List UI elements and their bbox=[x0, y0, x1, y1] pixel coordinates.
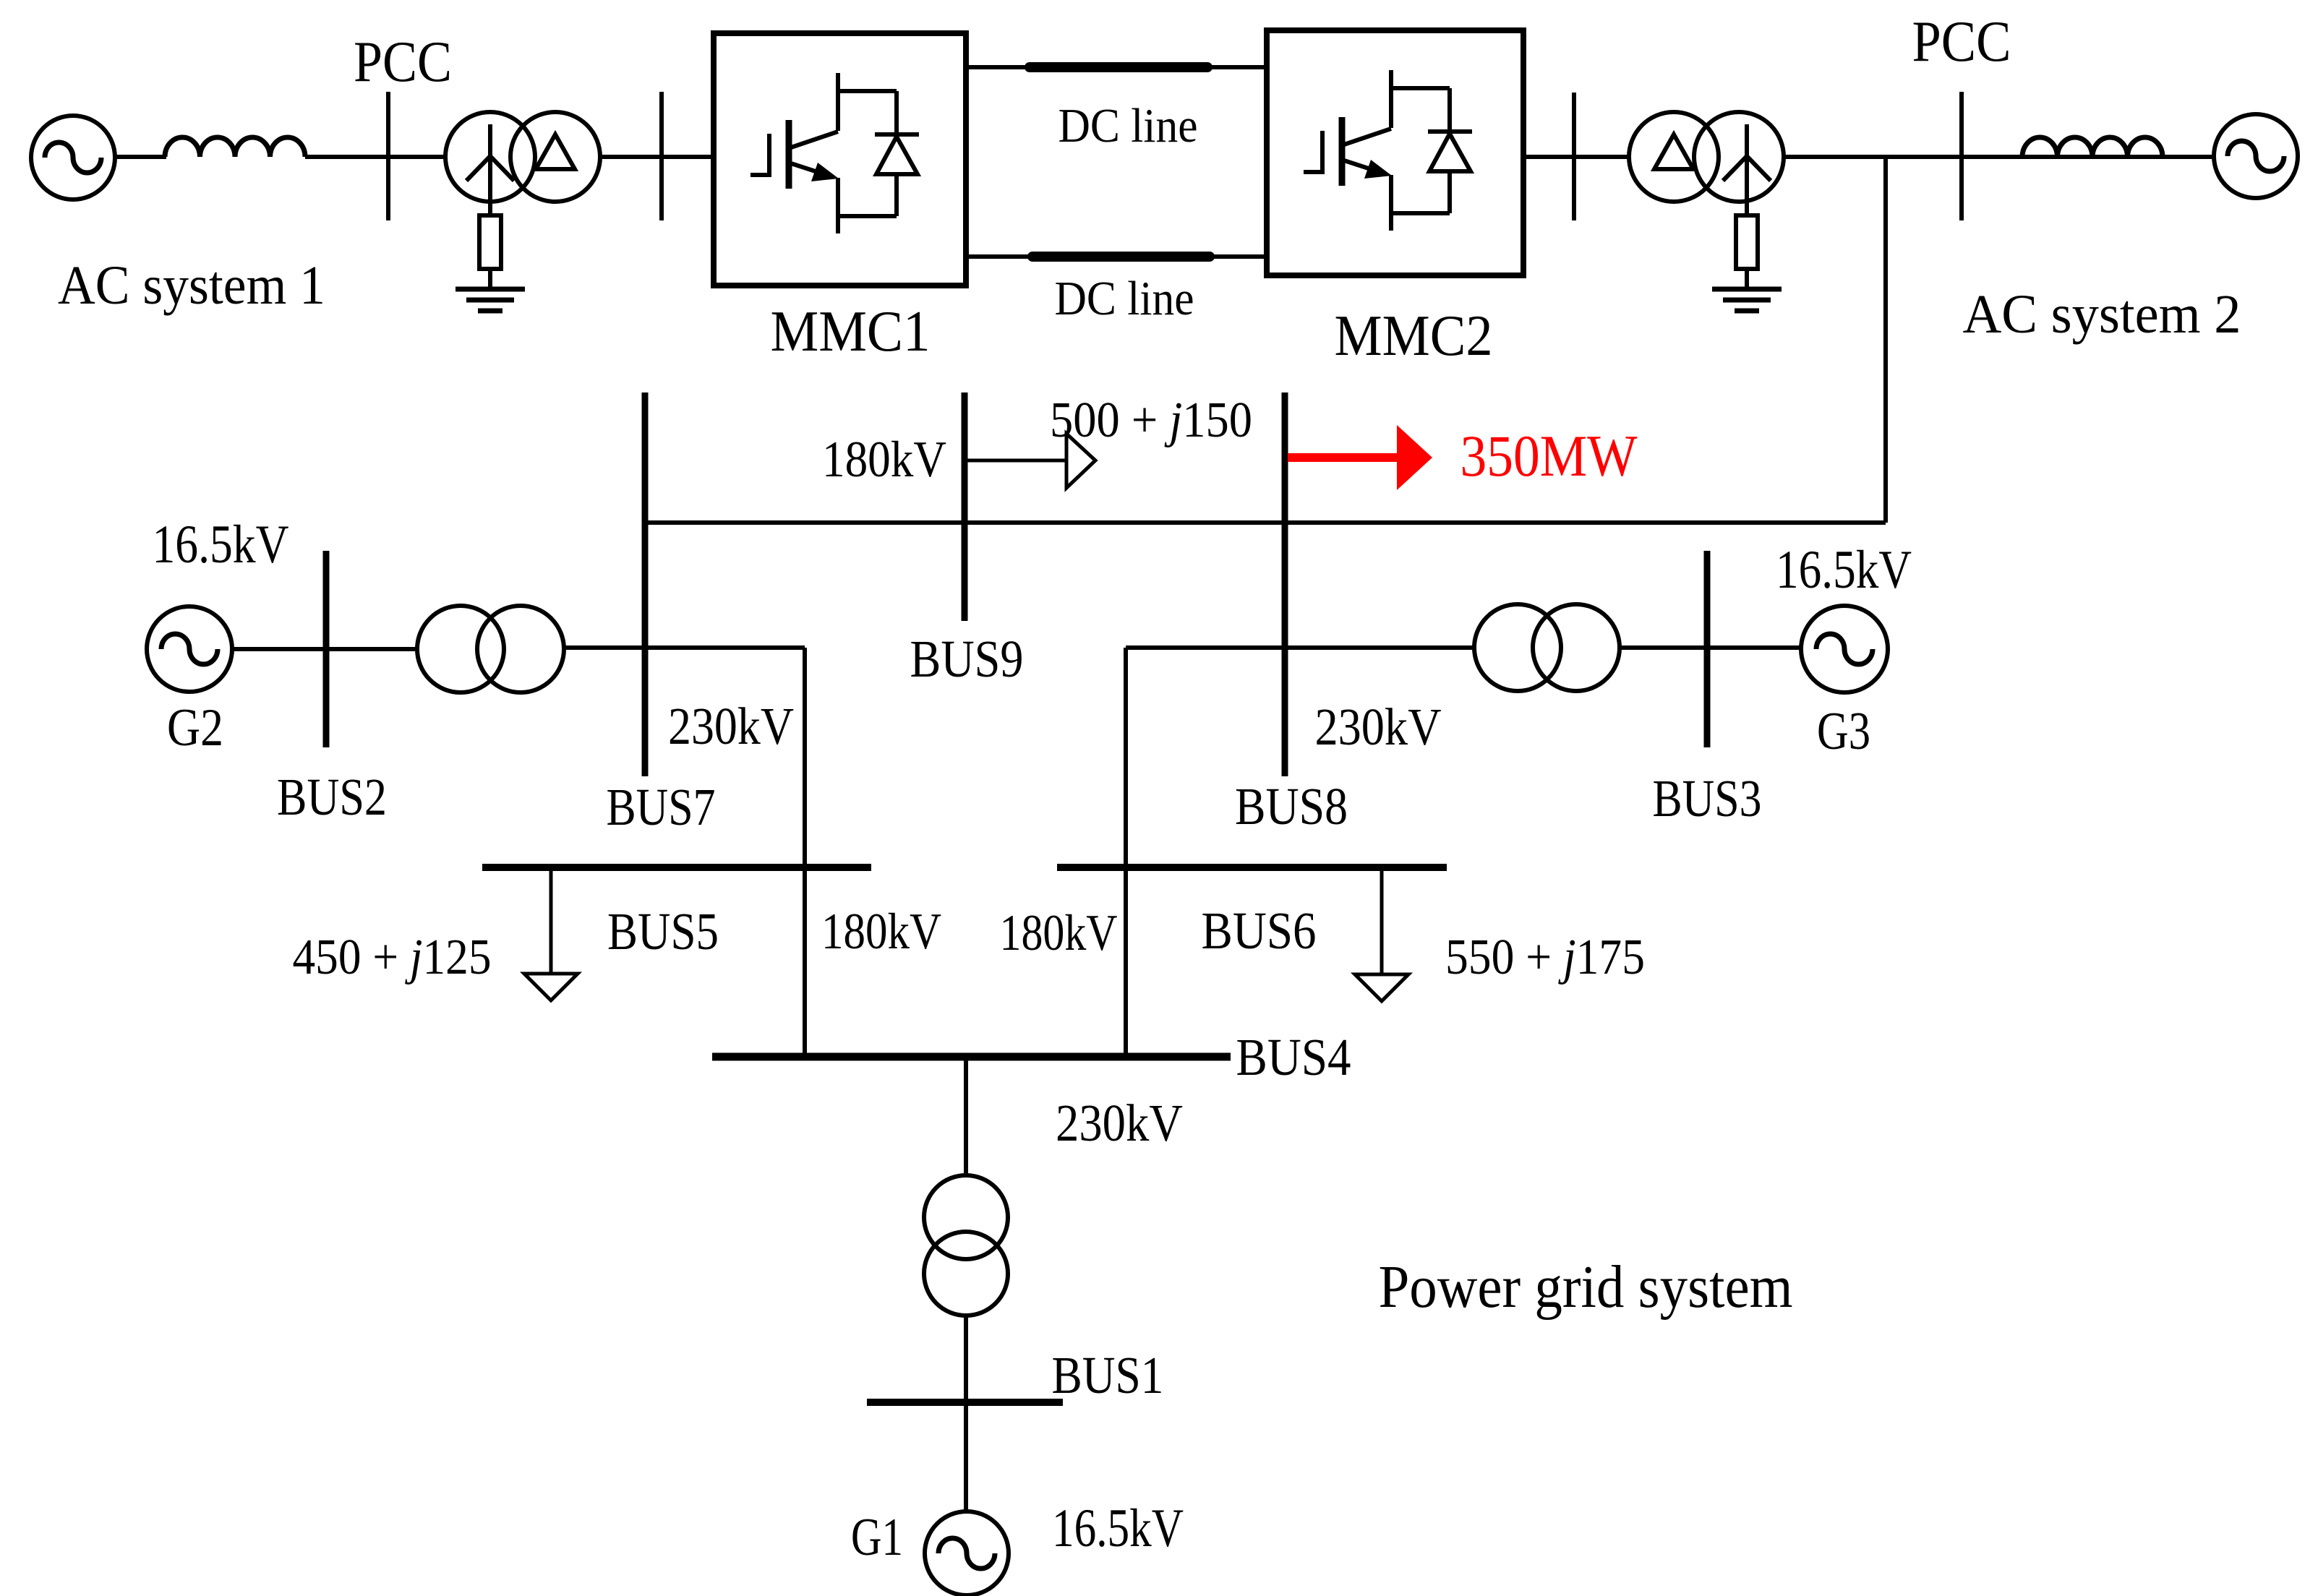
power flow arrow 350MW shaft bbox=[1288, 453, 1397, 462]
wire DC line top bbox=[966, 65, 1267, 69]
load at BUS6 wire bbox=[1380, 867, 1384, 974]
wire T5 to BUS1 bbox=[964, 1316, 968, 1402]
node PCC (left) bus tick bbox=[386, 92, 390, 220]
transformer T5 circle A bbox=[924, 1175, 1008, 1259]
svg-text:Power grid system: Power grid system bbox=[1379, 1253, 1793, 1321]
load at BUS5 arrow head bbox=[524, 974, 578, 1000]
svg-text:AC system 2: AC system 2 bbox=[1963, 284, 2241, 345]
svg-text:BUS8: BUS8 bbox=[1235, 777, 1348, 836]
delta symbol T1 bbox=[536, 134, 575, 169]
transformer T2 delta winding circle bbox=[1629, 112, 1719, 202]
svg-text:16.5kV: 16.5kV bbox=[1776, 540, 1912, 600]
svg-text:AC system 1: AC system 1 bbox=[58, 255, 325, 316]
svg-text:BUS6: BUS6 bbox=[1202, 901, 1317, 960]
wire BUS8 branch to T4 bbox=[1126, 645, 1475, 650]
wire DC line bottom bbox=[966, 254, 1267, 259]
transistor IGBT of MMC2 bbox=[1304, 70, 1472, 231]
transformer T4 circle A bbox=[1474, 604, 1561, 691]
svg-text:BUS9: BUS9 bbox=[910, 630, 1024, 688]
transformer T1 delta winding circle bbox=[510, 112, 600, 202]
svg-text:BUS2: BUS2 bbox=[277, 768, 387, 826]
svg-text:BUS3: BUS3 bbox=[1653, 769, 1762, 828]
svg-text:BUS1: BUS1 bbox=[1052, 1346, 1164, 1404]
bus BUS7 bar bbox=[642, 392, 649, 776]
node MMC1 AC bus tick bbox=[659, 92, 664, 220]
load at BUS6 arrow head bbox=[1355, 974, 1408, 1001]
wire T2 to AC source 2 bbox=[1784, 155, 2214, 159]
transformer T3 circle A bbox=[417, 606, 504, 692]
power flow arrow 350MW head bbox=[1397, 425, 1432, 490]
svg-text:180kV: 180kV bbox=[821, 904, 941, 960]
bus BUS5 bar bbox=[482, 864, 871, 871]
inductor L2 (AC system 2 impedance) bbox=[2022, 137, 2163, 157]
svg-text:MMC2: MMC2 bbox=[1335, 304, 1493, 368]
svg-text:DC line: DC line bbox=[1059, 99, 1198, 153]
DC cable top (thick segment) bbox=[1030, 62, 1207, 72]
wire junction down to grid line bbox=[1883, 157, 1888, 523]
AC source 2 (AC system 2 grid source) bbox=[2214, 114, 2298, 198]
ground (left transformer neutral) bbox=[456, 289, 525, 311]
svg-text:350MW: 350MW bbox=[1460, 423, 1638, 489]
wire resistor R1 to ground bbox=[488, 269, 492, 289]
wire corner down to BUS4 (right 180kV feeder) bbox=[1124, 648, 1128, 1057]
wire source1 to inductor bbox=[115, 155, 166, 159]
svg-text:G3: G3 bbox=[1817, 702, 1870, 761]
wire G2 to T3 bbox=[232, 647, 418, 651]
transistor IGBT of MMC1 bbox=[750, 73, 919, 233]
load arrow at BUS9 wire bbox=[965, 459, 1066, 463]
node MMC2 AC bus tick bbox=[1572, 93, 1576, 220]
transformer T3 circle B bbox=[477, 606, 564, 692]
svg-text:550 + j175: 550 + j175 bbox=[1445, 930, 1645, 985]
generator G2 source circle bbox=[147, 606, 232, 692]
svg-text:MMC1: MMC1 bbox=[771, 300, 931, 364]
svg-text:16.5kV: 16.5kV bbox=[1052, 1498, 1184, 1558]
svg-text:230kV: 230kV bbox=[668, 697, 794, 755]
bus BUS9 bar bbox=[962, 392, 968, 621]
converter MMC2 box bbox=[1267, 30, 1523, 275]
generator G1 source circle bbox=[925, 1511, 1009, 1595]
transformer T4 circle B bbox=[1533, 604, 1620, 691]
resistor R2 (grounding) bbox=[1736, 215, 1758, 269]
svg-text:DC line: DC line bbox=[1055, 272, 1194, 325]
bus BUS2 bar bbox=[323, 551, 330, 747]
wire inductor to PCC bus bbox=[305, 155, 448, 159]
wire BUS1 down to G1 bbox=[964, 1402, 968, 1512]
svg-text:BUS7: BUS7 bbox=[607, 778, 716, 836]
svg-text:450 + j125: 450 + j125 bbox=[293, 930, 492, 985]
generator G3 source circle bbox=[1801, 606, 1888, 692]
svg-text:180kV: 180kV bbox=[1000, 905, 1118, 961]
wire corner down to BUS4 (left 180kV feeder) bbox=[803, 648, 807, 1057]
wye symbol T2 bbox=[1723, 124, 1771, 215]
node PCC (right) bus tick bbox=[1959, 92, 1964, 220]
wire resistor R2 to ground bbox=[1745, 269, 1749, 289]
svg-text:PCC: PCC bbox=[1912, 10, 2011, 74]
svg-text:PCC: PCC bbox=[354, 30, 452, 94]
wire T4 to G3 bbox=[1620, 645, 1802, 650]
bus BUS4 bar bbox=[712, 1053, 1231, 1061]
delta symbol T2 bbox=[1654, 134, 1693, 169]
DC cable bottom (thick segment) bbox=[1032, 252, 1210, 262]
transformer T1 wye winding circle bbox=[445, 112, 535, 202]
svg-text:230kV: 230kV bbox=[1056, 1094, 1183, 1152]
svg-text:G2: G2 bbox=[167, 698, 223, 758]
svg-text:G1: G1 bbox=[851, 1508, 903, 1567]
wire BUS4 down to T5 bbox=[964, 1057, 968, 1177]
svg-text:16.5kV: 16.5kV bbox=[153, 515, 289, 575]
bus BUS6 bar bbox=[1057, 864, 1447, 871]
bus BUS3 bar bbox=[1704, 551, 1711, 747]
wire T1 to MMC1 bbox=[600, 155, 714, 159]
AC source 1 (AC system 1 grid source) bbox=[31, 116, 115, 199]
load arrow at BUS9 open head bbox=[1066, 434, 1095, 488]
svg-text:180kV: 180kV bbox=[822, 432, 946, 488]
wire grid top line BUS7 to junction bbox=[645, 520, 1886, 525]
wire MMC2 to T2 bbox=[1523, 155, 1630, 159]
converter MMC1 box bbox=[714, 33, 966, 286]
transformer T2 wye winding circle bbox=[1694, 112, 1784, 202]
wye symbol T1 bbox=[466, 124, 514, 215]
svg-text:500 + j150: 500 + j150 bbox=[1050, 392, 1252, 448]
transformer T5 circle B bbox=[924, 1232, 1008, 1316]
wire T3 to BUS7 to corner bbox=[564, 645, 805, 650]
svg-text:BUS5: BUS5 bbox=[607, 902, 719, 961]
bus BUS1 bar bbox=[867, 1399, 1063, 1406]
bus BUS8 bar bbox=[1282, 392, 1288, 776]
svg-text:BUS4: BUS4 bbox=[1236, 1028, 1351, 1086]
svg-text:230kV: 230kV bbox=[1315, 698, 1442, 756]
load at BUS5 wire bbox=[549, 867, 553, 974]
resistor R1 (grounding) bbox=[479, 215, 501, 269]
inductor L1 (AC system 1 impedance) bbox=[165, 137, 305, 157]
ground (right transformer neutral) bbox=[1712, 289, 1782, 311]
